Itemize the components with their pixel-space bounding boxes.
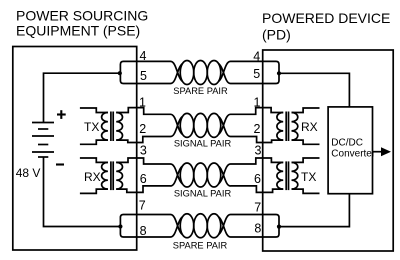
svg-text:EQUIPMENT (PSE): EQUIPMENT (PSE) xyxy=(16,23,140,39)
svg-text:RX: RX xyxy=(84,170,101,184)
svg-text:Converter: Converter xyxy=(331,149,376,160)
svg-text:8: 8 xyxy=(254,222,261,236)
svg-text:SIGNAL PAIR: SIGNAL PAIR xyxy=(174,188,232,198)
svg-text:7: 7 xyxy=(139,199,146,213)
svg-text:2: 2 xyxy=(254,122,261,136)
svg-text:2: 2 xyxy=(139,122,146,136)
svg-text:SPARE PAIR: SPARE PAIR xyxy=(173,86,228,96)
svg-text:5: 5 xyxy=(253,67,260,81)
svg-text:(PD): (PD) xyxy=(262,27,291,43)
svg-text:1: 1 xyxy=(139,95,146,109)
svg-text:4: 4 xyxy=(140,49,147,63)
svg-text:8: 8 xyxy=(140,224,147,238)
svg-text:POWER SOURCING: POWER SOURCING xyxy=(16,7,148,23)
svg-text:TX: TX xyxy=(84,120,99,134)
svg-text:DC/DC: DC/DC xyxy=(331,137,363,148)
svg-text:SIGNAL PAIR: SIGNAL PAIR xyxy=(174,138,232,148)
svg-text:SPARE PAIR: SPARE PAIR xyxy=(173,241,228,251)
svg-text:RX: RX xyxy=(301,120,318,134)
svg-text:6: 6 xyxy=(254,172,261,186)
svg-text:7: 7 xyxy=(254,201,261,215)
svg-text:POWERED DEVICE: POWERED DEVICE xyxy=(262,10,390,26)
svg-text:4: 4 xyxy=(253,50,260,64)
svg-text:6: 6 xyxy=(140,172,147,186)
svg-text:1: 1 xyxy=(254,95,261,109)
svg-text:3: 3 xyxy=(140,143,147,157)
svg-text:TX: TX xyxy=(301,170,316,184)
svg-text:48 V: 48 V xyxy=(16,166,41,180)
svg-text:3: 3 xyxy=(255,143,262,157)
svg-text:5: 5 xyxy=(140,69,147,83)
